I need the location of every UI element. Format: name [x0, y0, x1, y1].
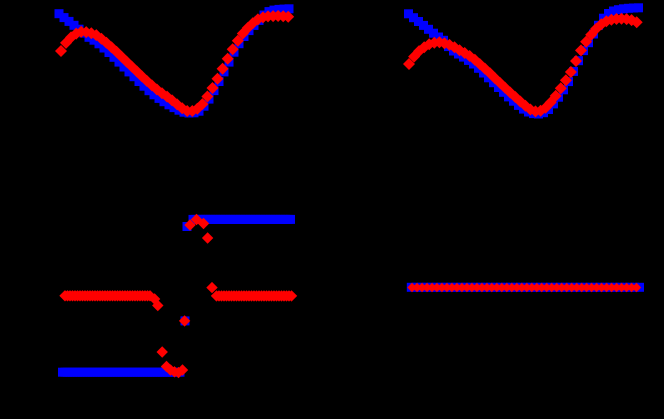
bottom-left panel: red diamonds phase [59, 214, 297, 378]
top-left panel: red diamonds curve [55, 10, 294, 117]
top-right panel: red diamonds curve [403, 13, 643, 118]
bottom-right panel: blue squares flat line [407, 283, 644, 292]
bottom-left panel: blue squares phase steps [58, 215, 295, 377]
top-right panel: blue squares curve [404, 3, 643, 118]
top-left panel: blue squares curve [55, 4, 294, 117]
bottom-right panel: red diamonds flat line [407, 283, 641, 292]
